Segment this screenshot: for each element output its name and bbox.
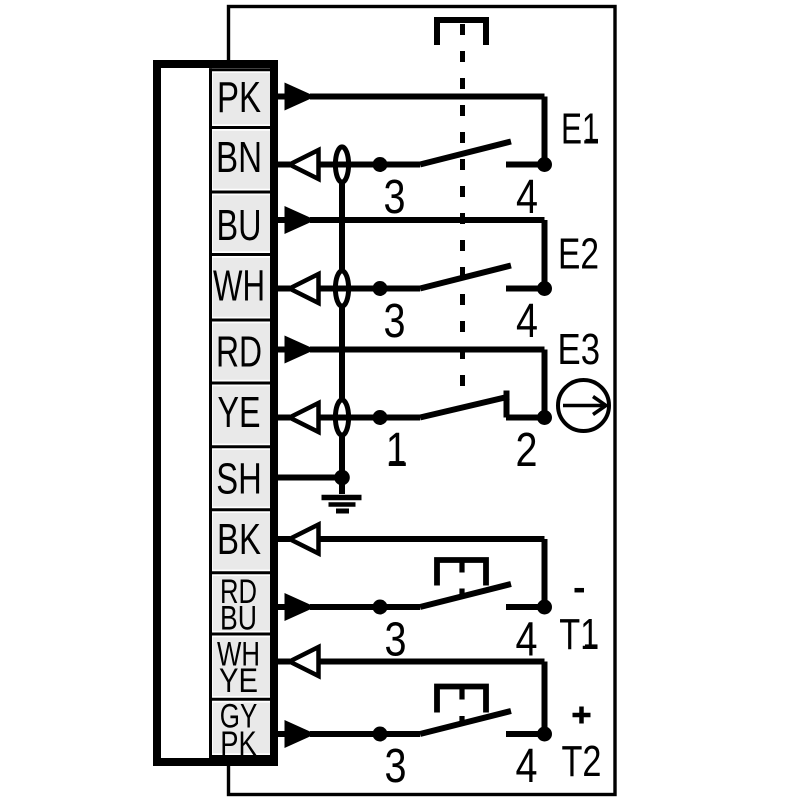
svg-text:3: 3 [384, 294, 406, 348]
svg-text:4: 4 [516, 294, 538, 348]
svg-text:4: 4 [516, 739, 538, 793]
svg-text:T1: T1 [559, 610, 599, 659]
svg-text:3: 3 [384, 170, 406, 224]
svg-text:E3: E3 [558, 325, 601, 374]
svg-text:YE: YE [218, 389, 261, 437]
svg-text:PK: PK [220, 725, 257, 763]
svg-text:3: 3 [385, 739, 407, 793]
svg-text:1: 1 [386, 423, 408, 477]
svg-text:E1: E1 [561, 105, 600, 154]
svg-text:BN: BN [216, 134, 262, 182]
svg-text:SH: SH [216, 456, 262, 504]
svg-text:YE: YE [219, 662, 258, 700]
svg-text:3: 3 [385, 613, 407, 667]
svg-text:4: 4 [516, 613, 538, 667]
svg-text:4: 4 [516, 170, 538, 224]
svg-text:WH: WH [213, 263, 265, 311]
svg-text:RD: RD [216, 329, 262, 377]
svg-text:PK: PK [217, 74, 261, 122]
svg-text:T2: T2 [562, 737, 602, 786]
svg-text:BU: BU [217, 202, 262, 250]
svg-text:E2: E2 [558, 230, 599, 279]
svg-text:BK: BK [217, 516, 261, 564]
svg-text:2: 2 [516, 423, 538, 477]
svg-text:BU: BU [220, 599, 257, 637]
